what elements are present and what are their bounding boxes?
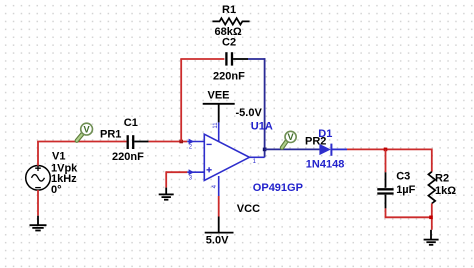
- svg-text:C2: C2: [222, 36, 236, 48]
- wire feedback right vertical: [264, 58, 266, 157]
- probe PR2: [282, 131, 296, 147]
- svg-text:11: 11: [213, 122, 219, 129]
- svg-text:V: V: [288, 132, 295, 142]
- wire C3 top red: [385, 149, 387, 172]
- svg-text:C1: C1: [124, 117, 138, 129]
- wire V1 top lead: [37, 142, 39, 166]
- wire V1 bottom lead red: [37, 190, 39, 216]
- op-amp U1 pin 3 non-inverting input: [187, 171, 204, 173]
- node junction C3: [384, 148, 388, 152]
- wire non-inverting input to ground horizontal: [166, 171, 187, 173]
- svg-text:1kΩ: 1kΩ: [435, 185, 456, 197]
- svg-text:R1: R1: [222, 4, 236, 16]
- svg-text:220nF: 220nF: [213, 71, 245, 83]
- svg-text:U1A: U1A: [251, 121, 273, 133]
- svg-text:D1: D1: [318, 128, 332, 140]
- svg-text:-5.0V: -5.0V: [236, 107, 263, 119]
- svg-text:C3: C3: [396, 170, 410, 182]
- wire ground lead black: [165, 188, 167, 195]
- wire feedback left vertical: [180, 59, 182, 142]
- wire C3 bottom lead black: [385, 195, 387, 209]
- svg-text:0°: 0°: [51, 184, 62, 196]
- wire input net horizontal: [37, 141, 127, 143]
- capacitor C3: [377, 189, 393, 193]
- resistor R2: [428, 172, 435, 204]
- wire R2 top red: [431, 149, 433, 172]
- svg-text:V: V: [84, 124, 91, 134]
- svg-text:OP491GP: OP491GP: [253, 182, 303, 194]
- ground below V1: [30, 225, 47, 230]
- wire C2 to feedback right: [248, 58, 265, 60]
- svg-text:VCC: VCC: [237, 203, 260, 215]
- svg-text:VEE: VEE: [208, 89, 230, 101]
- svg-text:V1: V1: [52, 150, 65, 162]
- capacitor C2: [226, 52, 248, 65]
- svg-text:PR1: PR1: [100, 129, 121, 141]
- wire output to diode: [265, 148, 320, 150]
- wire VCC lead red: [218, 196, 220, 217]
- wire ground lead right black: [430, 230, 432, 240]
- svg-text:1N4148: 1N4148: [306, 159, 345, 171]
- svg-text:5.0V: 5.0V: [206, 234, 229, 246]
- op-amp U1 pin 1 output: [249, 156, 264, 158]
- capacitor C1: [128, 135, 149, 149]
- op-amp U1 pin 4 VCC pin: [218, 176, 220, 196]
- wire V1 ground lead black: [37, 216, 39, 225]
- op-amp U1: [187, 122, 264, 196]
- wire bottom net horizontal: [385, 216, 431, 218]
- wire C3 top lead black: [385, 172, 387, 188]
- op-amp U1 pin 11 VEE pin: [218, 122, 220, 141]
- resistor R1: [212, 18, 249, 24]
- ground at output: [424, 240, 439, 245]
- voltage source V1: [26, 165, 51, 190]
- node junction input/feedback: [179, 140, 183, 144]
- VEE supply: [203, 104, 235, 123]
- wire ground drop red: [165, 171, 167, 187]
- svg-text:R2: R2: [435, 172, 449, 184]
- ground at op-amp input: [159, 194, 174, 199]
- wire diode to load: [347, 148, 432, 150]
- VCC supply: [205, 217, 234, 233]
- node junction output: [263, 148, 267, 152]
- wire R2 bottom red: [431, 204, 433, 230]
- wire C3 bottom red: [385, 208, 387, 217]
- svg-text:220nF: 220nF: [112, 151, 144, 163]
- node junction R2 ground: [429, 216, 433, 220]
- op-amp U1 pin 2 inverting input: [187, 141, 204, 143]
- svg-text:1µF: 1µF: [396, 184, 415, 196]
- wire C1 to op-amp input: [149, 141, 188, 143]
- diode D1: [319, 144, 347, 156]
- probe PR1: [77, 123, 93, 140]
- wire feedback top left to C2: [180, 58, 224, 60]
